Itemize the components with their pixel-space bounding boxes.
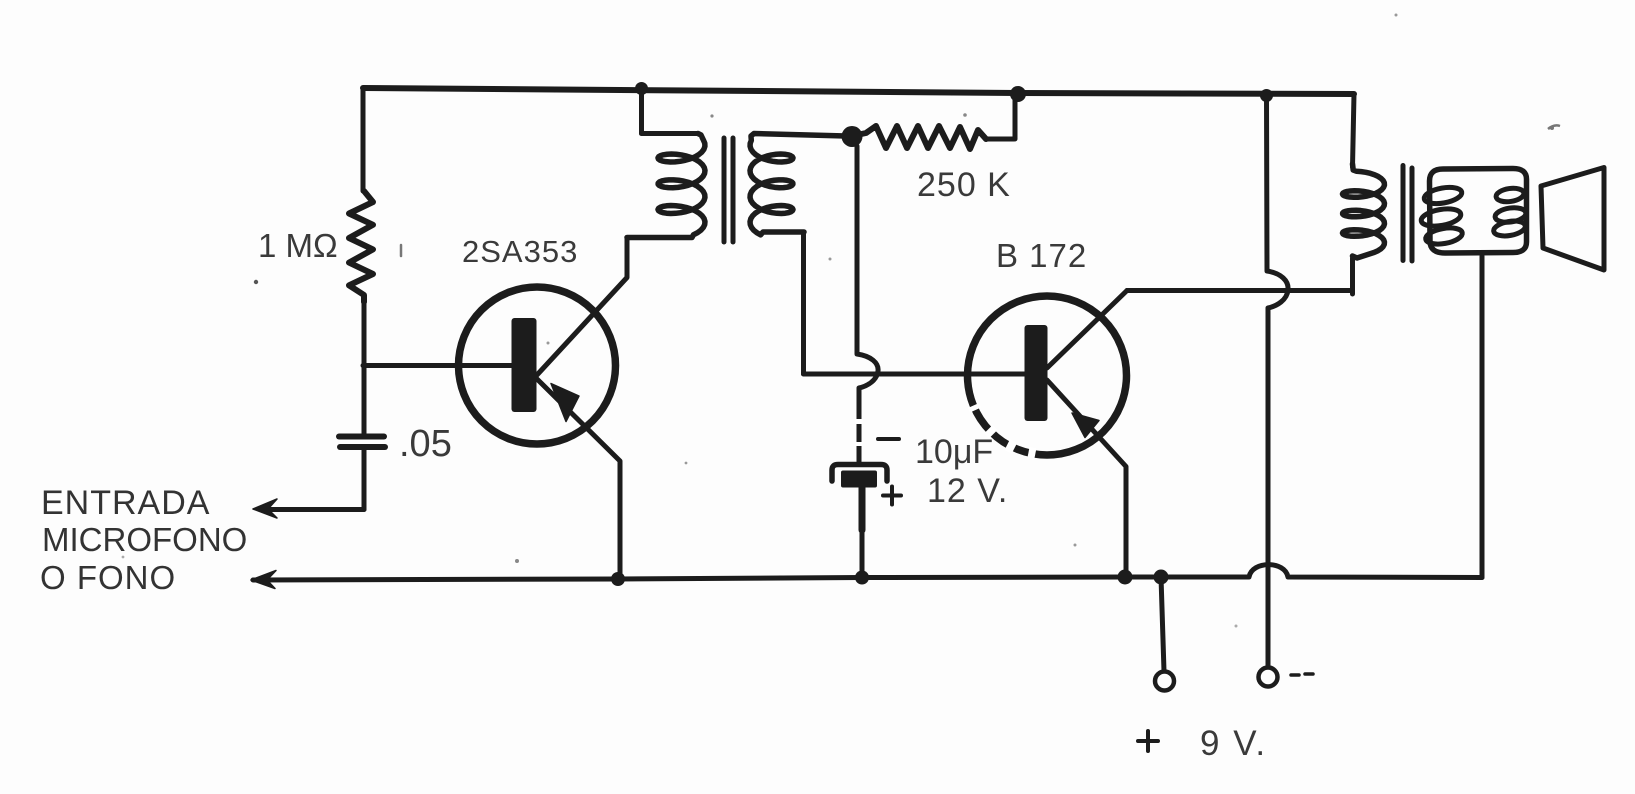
- svg-text:10μF: 10μF: [915, 433, 993, 471]
- svg-text:ENTRADA: ENTRADA: [41, 484, 210, 522]
- svg-text:12 V.: 12 V.: [927, 472, 1008, 510]
- svg-text:MICROFONO: MICROFONO: [42, 521, 247, 558]
- svg-text:250 K: 250 K: [917, 166, 1011, 204]
- svg-text:1 MΩ: 1 MΩ: [258, 227, 338, 264]
- svg-text:B 172: B 172: [996, 237, 1087, 274]
- svg-text:2SA353: 2SA353: [462, 234, 578, 269]
- svg-text:.05: .05: [399, 423, 452, 465]
- svg-text:9 V.: 9 V.: [1200, 724, 1267, 763]
- svg-text:O FONO: O FONO: [40, 559, 176, 596]
